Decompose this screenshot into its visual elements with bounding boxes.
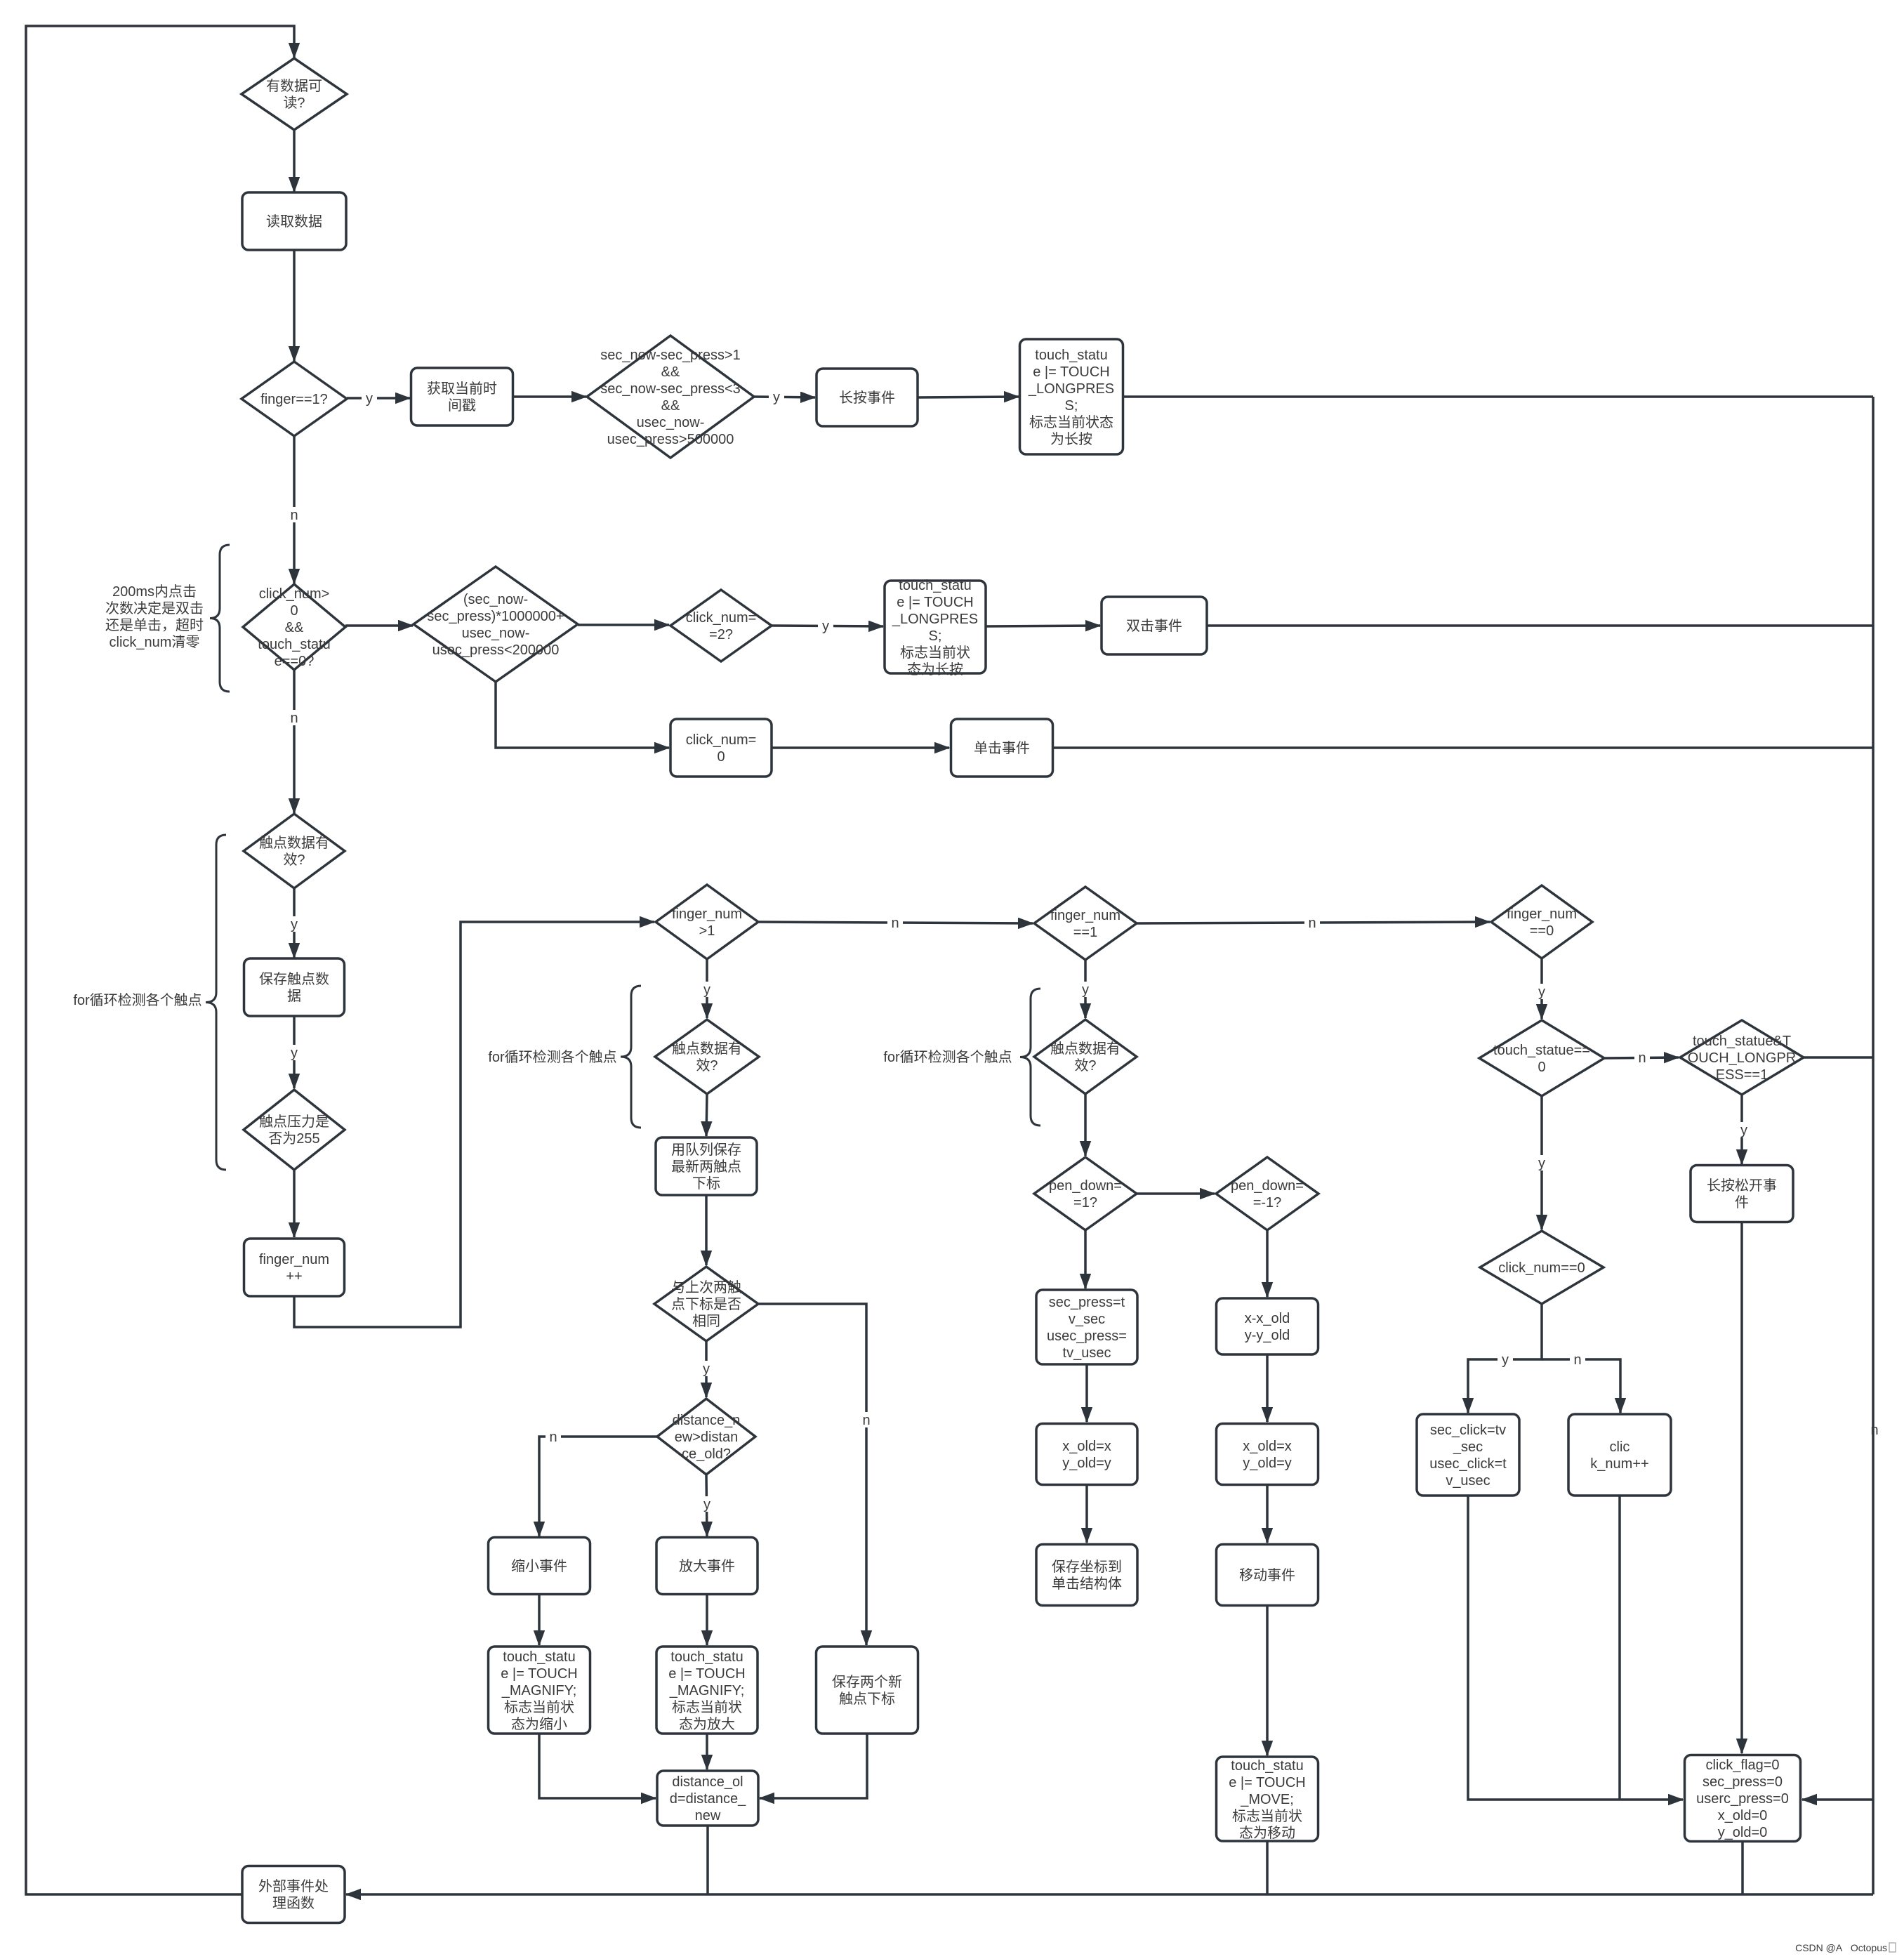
svg-text:200ms内点击: 200ms内点击 [112,583,197,600]
svg-text:clic: clic [1610,1439,1630,1455]
svg-text:n: n [290,508,298,523]
svg-text:读取数据: 读取数据 [266,213,322,230]
svg-text:外部事件处: 外部事件处 [258,1878,329,1894]
svg-text:pen_down=: pen_down= [1049,1178,1122,1194]
svg-text:touch_statu: touch_statu [670,1649,743,1665]
svg-text:触点数据有: 触点数据有 [1050,1041,1120,1057]
svg-text:触点压力是: 触点压力是 [259,1114,329,1130]
svg-text:还是单击，超时: 还是单击，超时 [105,617,204,633]
svg-text:>1: >1 [699,923,715,939]
svg-text:sec_now-sec_press>1: sec_now-sec_press>1 [600,348,741,363]
svg-text:distance_ol: distance_ol [672,1774,743,1790]
svg-text:finger==1?: finger==1? [260,392,328,407]
svg-text:标志当前状: 标志当前状 [672,1699,742,1715]
svg-text:下标: 下标 [692,1175,720,1192]
svg-text:y-y_old: y-y_old [1245,1328,1290,1343]
svg-text:&&: && [285,620,304,635]
svg-text:e==0?: e==0? [275,654,315,669]
svg-text:y: y [291,1046,298,1061]
svg-text:否为255: 否为255 [268,1130,319,1147]
svg-text:click_num清零: click_num清零 [110,634,200,650]
svg-text:=2?: =2? [709,627,733,642]
svg-text:y: y [703,982,710,998]
svg-text:有数据可: 有数据可 [266,78,322,94]
svg-text:usec_now-: usec_now- [637,415,705,430]
svg-text:用队列保存: 用队列保存 [671,1142,741,1158]
svg-text:态为长按: 态为长按 [907,661,963,678]
svg-text:_MOVE;: _MOVE; [1240,1792,1294,1807]
svg-text:y: y [1740,1123,1747,1138]
svg-text:e |= TOUCH: e |= TOUCH [1229,1775,1306,1790]
svg-text:n: n [891,916,899,931]
svg-text:y: y [1082,982,1089,998]
svg-text:效?: 效? [283,852,305,868]
svg-text:sec_press)*1000000+: sec_press)*1000000+ [427,609,564,624]
svg-text:理函数: 理函数 [272,1895,315,1911]
svg-text:v_usec: v_usec [1446,1473,1490,1489]
svg-text:n: n [290,711,298,726]
svg-text:touch_statu: touch_statu [258,637,330,652]
svg-text:为长按: 为长按 [1050,431,1092,447]
svg-text:y: y [291,917,298,932]
svg-text:缩小事件: 缩小事件 [511,1558,567,1574]
svg-text:x_old=x: x_old=x [1243,1439,1292,1454]
svg-text:单击结构体: 单击结构体 [1052,1576,1122,1592]
svg-text:y: y [703,1497,710,1512]
svg-text:长按事件: 长按事件 [839,390,895,406]
svg-text:finger_num: finger_num [1507,906,1577,922]
svg-text:读?: 读? [283,95,305,111]
svg-text:usec_now-: usec_now- [462,626,530,641]
svg-text:态为放大: 态为放大 [679,1716,735,1732]
svg-text:据: 据 [287,988,301,1004]
svg-text:pen_down=: pen_down= [1231,1178,1304,1194]
svg-text:S;: S; [1065,398,1078,414]
svg-text:for循环检测各个触点: for循环检测各个触点 [883,1049,1012,1065]
svg-text:==0: ==0 [1530,923,1554,939]
svg-text:sec_now-sec_press<3: sec_now-sec_press<3 [600,381,741,397]
svg-text:保存坐标到: 保存坐标到 [1052,1559,1122,1575]
svg-text:n: n [862,1413,870,1428]
svg-text:sec_press=0: sec_press=0 [1703,1774,1783,1790]
svg-text:finger_num: finger_num [1050,908,1120,923]
svg-text:y: y [1538,1156,1545,1171]
svg-text:==1: ==1 [1073,925,1097,940]
svg-text:sec_press=t: sec_press=t [1049,1295,1125,1310]
svg-text:获取当前时: 获取当前时 [427,381,497,397]
svg-text:y: y [703,1361,710,1377]
svg-text:touch_statu: touch_statu [503,1649,575,1665]
svg-text:touch_statue&T: touch_statue&T [1693,1034,1791,1049]
svg-text:触点下标: 触点下标 [839,1691,895,1707]
svg-text:e |= TOUCH: e |= TOUCH [897,595,974,610]
svg-text:0: 0 [1538,1060,1545,1075]
svg-text:y: y [366,391,373,407]
svg-text:finger_num: finger_num [672,906,742,922]
svg-text:finger_num: finger_num [259,1252,329,1267]
svg-text:e |= TOUCH: e |= TOUCH [668,1666,746,1682]
svg-text:_MAGNIFY;: _MAGNIFY; [501,1683,577,1699]
svg-text:touch_statu: touch_statu [899,578,971,593]
svg-text:++: ++ [286,1269,302,1284]
svg-text:(sec_now-: (sec_now- [463,592,528,607]
svg-text:&&: && [661,364,680,380]
svg-text:click_num>: click_num> [259,586,330,602]
svg-text:touch_statu: touch_statu [1035,348,1107,363]
svg-text:_LONGPRES: _LONGPRES [1028,381,1114,397]
svg-text:y_old=0: y_old=0 [1718,1825,1768,1840]
svg-text:ew>distan: ew>distan [675,1430,739,1445]
svg-text:_MAGNIFY;: _MAGNIFY; [669,1683,745,1699]
svg-text:for循环检测各个触点: for循环检测各个触点 [488,1049,616,1065]
svg-text:userc_press=0: userc_press=0 [1696,1791,1789,1807]
svg-text:x_old=x: x_old=x [1062,1439,1111,1454]
svg-text:双击事件: 双击事件 [1126,618,1182,634]
svg-text:OUCH_LONGPR: OUCH_LONGPR [1688,1050,1796,1066]
svg-text:最新两触点: 最新两触点 [671,1159,741,1175]
svg-text:间戳: 间戳 [448,397,476,414]
svg-text:态为缩小: 态为缩小 [511,1716,567,1732]
svg-text:放大事件: 放大事件 [679,1558,735,1574]
svg-text:d=distance_: d=distance_ [670,1791,746,1807]
svg-text:标志当前状: 标志当前状 [504,1699,574,1715]
svg-text:y_old=y: y_old=y [1243,1456,1292,1471]
svg-text:标志当前状: 标志当前状 [1232,1808,1302,1824]
svg-text:单击事件: 单击事件 [974,740,1030,756]
svg-text:次数决定是双击: 次数决定是双击 [105,600,204,616]
svg-text:n: n [1870,1423,1878,1438]
svg-text:y_old=y: y_old=y [1062,1456,1111,1471]
svg-text:ce_old?: ce_old? [682,1446,731,1462]
svg-text:n: n [1573,1352,1581,1368]
svg-text:y: y [1538,984,1545,1000]
svg-text:x_old=0: x_old=0 [1718,1808,1768,1823]
svg-text:distance_n: distance_n [673,1413,741,1428]
svg-text:相同: 相同 [692,1313,720,1329]
svg-text:touch_statue==: touch_statue== [1493,1043,1590,1058]
svg-text:n: n [1308,916,1316,931]
svg-text:for循环检测各个触点: for循环检测各个触点 [73,992,201,1008]
svg-text:sec_click=tv: sec_click=tv [1430,1423,1506,1438]
svg-text:_sec: _sec [1453,1439,1483,1455]
svg-text:y: y [773,390,780,405]
svg-text:usec_press>500000: usec_press>500000 [607,432,734,447]
svg-text:e |= TOUCH: e |= TOUCH [501,1666,578,1682]
svg-text:保存触点数: 保存触点数 [259,971,329,987]
svg-text:标志当前状: 标志当前状 [900,645,970,661]
svg-text:x-x_old: x-x_old [1245,1311,1290,1326]
svg-text:&&: && [661,398,680,414]
svg-text:y: y [822,619,829,634]
svg-text:移动事件: 移动事件 [1239,1567,1295,1583]
svg-text:长按松开事: 长按松开事 [1707,1178,1777,1194]
svg-text:触点数据有: 触点数据有 [672,1041,742,1057]
svg-text:效?: 效? [696,1057,718,1074]
svg-text:标志当前状态: 标志当前状态 [1029,414,1113,430]
svg-text:态为移动: 态为移动 [1239,1825,1295,1841]
svg-text:k_num++: k_num++ [1590,1456,1648,1472]
svg-text:n: n [549,1430,557,1445]
svg-text:new: new [695,1808,721,1823]
svg-text:tv_usec: tv_usec [1063,1345,1111,1361]
svg-text:e |= TOUCH: e |= TOUCH [1033,364,1110,380]
svg-text:y: y [1502,1352,1509,1368]
svg-text:触点数据有: 触点数据有 [259,835,329,851]
svg-text:click_num==0: click_num==0 [1498,1260,1585,1276]
svg-text:click_num=: click_num= [686,732,757,748]
svg-text:件: 件 [1735,1194,1749,1211]
svg-text:0: 0 [717,749,725,765]
svg-text:ESS==1: ESS==1 [1716,1067,1769,1083]
svg-text:usec_click=t: usec_click=t [1429,1456,1507,1472]
svg-text:=1?: =1? [1073,1195,1097,1211]
svg-text:usec_press=: usec_press= [1047,1328,1127,1344]
svg-text:S;: S; [929,628,942,644]
svg-text:_LONGPRES: _LONGPRES [892,612,978,627]
svg-text:click_flag=0: click_flag=0 [1705,1757,1779,1773]
svg-text:与上次两触: 与上次两触 [671,1279,741,1295]
svg-text:touch_statu: touch_statu [1231,1758,1303,1774]
svg-text:usec_press<200000: usec_press<200000 [432,642,560,658]
svg-text:保存两个新: 保存两个新 [832,1674,902,1690]
svg-text:v_sec: v_sec [1069,1312,1105,1327]
svg-text:n: n [1638,1050,1646,1066]
svg-text:点下标是否: 点下标是否 [671,1296,741,1312]
svg-text:CSDN @A Octopus: CSDN @A Octopus [1795,1942,1887,1953]
svg-text:效?: 效? [1074,1057,1096,1074]
svg-text:0: 0 [290,603,298,619]
svg-text:click_num=: click_num= [686,610,757,626]
svg-text:=-1?: =-1? [1253,1195,1282,1211]
